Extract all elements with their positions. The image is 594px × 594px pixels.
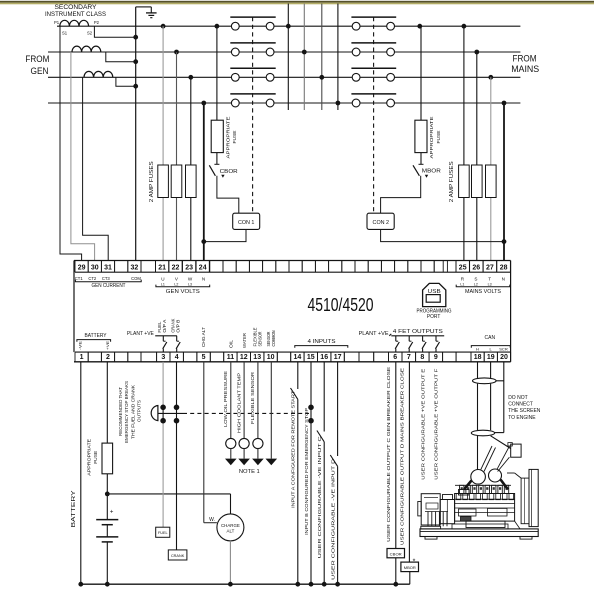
svg-text:APPROPRIATE: APPROPRIATE (429, 117, 434, 159)
svg-text:CRANK: CRANK (171, 554, 185, 558)
svg-text:10: 10 (267, 354, 275, 361)
svg-text:17: 17 (334, 354, 342, 361)
svg-text:USER CONFIGURABLE -VE INPUT C: USER CONFIGURABLE -VE INPUT C (317, 435, 322, 558)
svg-text:W.: W. (209, 517, 215, 523)
svg-text:31: 31 (104, 265, 112, 272)
svg-text:O/P A: O/P A (162, 319, 167, 332)
svg-text:BATTERY: BATTERY (85, 333, 108, 339)
svg-text:7: 7 (407, 354, 411, 361)
svg-text:WATER: WATER (242, 333, 247, 348)
svg-text:2 AMP FUSES: 2 AMP FUSES (149, 160, 155, 202)
svg-text:L1: L1 (161, 282, 165, 286)
svg-text:CT1: CT1 (75, 276, 84, 281)
svg-text:W: W (188, 276, 193, 281)
svg-text:4 FET OUTPUTS: 4 FET OUTPUTS (393, 329, 444, 335)
svg-text:4 INPUTS: 4 INPUTS (308, 339, 337, 345)
svg-text:EMERGENCY STOP BREAKS: EMERGENCY STOP BREAKS (124, 381, 129, 443)
svg-text:21: 21 (158, 265, 166, 272)
svg-text:GEN CURRENT: GEN CURRENT (92, 283, 126, 289)
svg-text:FLEXIBLE SENSOR: FLEXIBLE SENSOR (250, 372, 255, 424)
svg-text:8: 8 (420, 354, 424, 361)
svg-text:*: * (413, 559, 416, 566)
svg-text:USER CONFIGURABLE OUTPUT D MAI: USER CONFIGURABLE OUTPUT D MAINS BREAKER… (399, 368, 404, 545)
svg-text:L2: L2 (474, 282, 478, 286)
svg-text:L1: L1 (460, 282, 464, 286)
svg-text:CAN: CAN (485, 335, 496, 341)
svg-text:FUEL: FUEL (158, 531, 168, 535)
svg-text:2: 2 (106, 354, 110, 361)
svg-text:23: 23 (185, 265, 193, 272)
svg-text:RECOMMENDED THAT: RECOMMENDED THAT (118, 387, 123, 436)
svg-text:USER CONFIGURABLE OUTPUT C GEN: USER CONFIGURABLE OUTPUT C GEN BREAKER C… (386, 367, 391, 542)
svg-text:L3: L3 (188, 282, 192, 286)
svg-text:FUSE: FUSE (436, 131, 441, 144)
svg-text:13: 13 (253, 354, 261, 361)
svg-text:25: 25 (459, 265, 467, 272)
svg-text:CON 2: CON 2 (373, 220, 389, 226)
svg-text:HIGH COOLANT TEMP: HIGH COOLANT TEMP (237, 373, 242, 433)
svg-text:SENSOR: SENSOR (258, 332, 263, 347)
svg-text:4510/4520: 4510/4520 (308, 294, 374, 315)
svg-text:+: + (110, 509, 114, 515)
svg-text:9: 9 (434, 354, 438, 361)
svg-text:16: 16 (320, 354, 328, 361)
svg-text:PLANT +VE: PLANT +VE (127, 331, 155, 337)
svg-text:12: 12 (240, 354, 248, 361)
svg-text:GEN: GEN (31, 66, 49, 76)
svg-text:MBOR: MBOR (422, 168, 441, 174)
svg-text:20: 20 (500, 354, 508, 361)
svg-text:NOTE 1: NOTE 1 (239, 469, 260, 475)
svg-text:GEN VOLTS: GEN VOLTS (166, 289, 201, 295)
svg-text:S1: S1 (62, 31, 68, 36)
svg-text:N: N (502, 276, 505, 281)
svg-text:CBOR: CBOR (220, 169, 238, 175)
svg-text:2 AMP FUSES: 2 AMP FUSES (449, 160, 455, 202)
svg-text:INPUT A CONFIGURED FOR REMOTE: INPUT A CONFIGURED FOR REMOTE START (291, 391, 296, 508)
svg-text:29: 29 (78, 265, 86, 272)
svg-text:SCR: SCR (499, 347, 508, 352)
svg-text:USER CONFIGURABLE -VE INPUT D: USER CONFIGURABLE -VE INPUT D (330, 459, 335, 580)
svg-text:CON 1: CON 1 (238, 220, 254, 226)
svg-text:MAINS: MAINS (511, 64, 539, 74)
svg-text:TO ENGINE: TO ENGINE (508, 415, 536, 421)
svg-text:APPROPRIATE: APPROPRIATE (226, 117, 231, 159)
svg-text:INSTRUMENT CLASS: INSTRUMENT CLASS (45, 12, 106, 18)
svg-text:24: 24 (199, 265, 207, 272)
svg-text:CHARGE: CHARGE (221, 523, 240, 528)
svg-text:ALT: ALT (227, 529, 235, 534)
svg-text:N: N (202, 276, 205, 281)
svg-text:FUSE: FUSE (93, 451, 98, 464)
svg-text:P2: P2 (94, 20, 100, 25)
svg-text:L3: L3 (488, 282, 492, 286)
svg-text:CT2: CT2 (88, 276, 97, 281)
svg-text:USER CONFIGURABLE +VE OUTPUT F: USER CONFIGURABLE +VE OUTPUT F (433, 368, 438, 479)
svg-text:APPROPRIATE: APPROPRIATE (87, 439, 92, 476)
svg-text:PLANT +VE: PLANT +VE (359, 331, 390, 337)
svg-text:30: 30 (91, 265, 99, 272)
svg-text:32: 32 (131, 265, 139, 272)
svg-text:14: 14 (294, 354, 302, 361)
svg-text:USER CONFIGURABLE +VE OUTPUT E: USER CONFIGURABLE +VE OUTPUT E (420, 369, 425, 480)
svg-text:SECONDARY: SECONDARY (55, 5, 97, 11)
svg-text:T: T (488, 276, 491, 281)
svg-text:CONNECT: CONNECT (508, 401, 533, 407)
svg-text:CT3: CT3 (102, 276, 111, 281)
svg-text:4: 4 (175, 354, 179, 361)
svg-text:11: 11 (227, 354, 235, 361)
svg-text:22: 22 (172, 265, 180, 272)
svg-text:O/P B: O/P B (175, 319, 180, 332)
svg-text:28: 28 (500, 265, 508, 272)
svg-text:18: 18 (474, 354, 482, 361)
svg-text:COM: COM (131, 276, 141, 281)
svg-text:OUTPUTS: OUTPUTS (137, 400, 142, 422)
svg-text:LOW OIL PRESSURE: LOW OIL PRESSURE (223, 371, 228, 427)
svg-text:6: 6 (393, 354, 397, 361)
svg-text:BATTERY: BATTERY (71, 489, 77, 527)
svg-text:S2: S2 (87, 31, 93, 36)
svg-text:PORT: PORT (427, 314, 441, 320)
svg-text:19: 19 (487, 354, 495, 361)
svg-text:THE FUEL AND CRANK: THE FUEL AND CRANK (130, 385, 135, 439)
svg-text:26: 26 (472, 265, 480, 272)
svg-text:15: 15 (307, 354, 315, 361)
svg-text:U: U (161, 276, 164, 281)
svg-text:THE SCREEN: THE SCREEN (508, 408, 541, 414)
svg-text:DO NOT: DO NOT (508, 395, 527, 401)
svg-text:CBOR: CBOR (390, 551, 402, 556)
svg-text:INPUT B CONFIGURED FOR EMERGEN: INPUT B CONFIGURED FOR EMERGENCY STOP (304, 408, 309, 535)
svg-text:27: 27 (486, 265, 494, 272)
svg-text:FUSE: FUSE (232, 131, 237, 144)
svg-text:-VE: -VE (77, 341, 82, 350)
svg-text:3: 3 (161, 354, 165, 361)
svg-text:OIL: OIL (228, 339, 233, 348)
svg-text:CHG ALT: CHG ALT (201, 327, 206, 347)
svg-text:FROM: FROM (513, 54, 537, 64)
svg-text:H: H (476, 347, 479, 352)
svg-text:COMMON: COMMON (271, 331, 276, 347)
svg-text:L2: L2 (174, 282, 178, 286)
svg-text:5: 5 (202, 354, 206, 361)
svg-text:MAINS VOLTS: MAINS VOLTS (465, 289, 502, 295)
svg-text:MBOR: MBOR (404, 565, 416, 570)
svg-text:+VE: +VE (105, 341, 110, 350)
svg-text:FROM: FROM (25, 54, 49, 64)
svg-text:S: S (474, 276, 477, 281)
svg-text:P1: P1 (54, 20, 60, 25)
svg-text:1: 1 (80, 354, 84, 361)
